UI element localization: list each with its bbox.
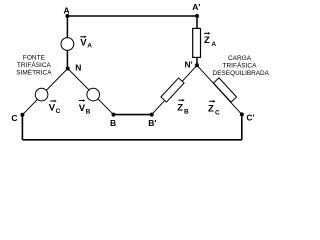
wire B to B'	[114, 114, 152, 116]
svg-text:A: A	[64, 6, 70, 16]
wire N' to B' (diagonal)	[152, 65, 197, 114]
svg-text:B: B	[86, 108, 91, 115]
wire A to A' (top line)	[67, 15, 197, 17]
svg-text:SIMÉTRICA: SIMÉTRICA	[16, 68, 52, 77]
node N	[66, 67, 70, 71]
wire ZA to N'	[196, 57, 198, 65]
impedance ZA (rectangle)	[193, 28, 201, 57]
source VC (circle)	[35, 88, 48, 101]
node C	[20, 113, 24, 117]
svg-text:C': C'	[246, 113, 254, 123]
svg-text:Z: Z	[208, 104, 214, 115]
label VA (vector arrow + V + subscript A)	[80, 36, 92, 50]
wire C down to bottom	[21, 115, 23, 140]
wire N' to C' (diagonal)	[197, 65, 242, 114]
source VB (circle)	[87, 88, 100, 101]
svg-text:N': N'	[185, 59, 193, 69]
svg-text:Z: Z	[177, 103, 183, 114]
source VA (circle)	[61, 38, 74, 51]
node B'	[150, 113, 154, 117]
wire C' up from bottom	[241, 114, 243, 139]
wire bottom C to C'	[22, 139, 241, 141]
node A	[65, 14, 69, 18]
svg-text:FONTE: FONTE	[23, 55, 46, 62]
svg-text:B': B'	[148, 118, 156, 128]
wire N to C (diagonal)	[22, 69, 67, 115]
wire N to B (diagonal)	[68, 69, 114, 115]
svg-text:C: C	[56, 108, 61, 115]
svg-text:N: N	[75, 63, 81, 73]
svg-text:TRIFÁSICA: TRIFÁSICA	[223, 61, 258, 70]
node A'	[195, 14, 199, 18]
node B	[112, 113, 116, 117]
svg-text:V: V	[80, 37, 87, 48]
label ZC (vector arrow + Z + subscript C)	[208, 100, 220, 117]
text FONTE TRIFASICA SIMETRICA	[16, 55, 52, 77]
wire A' down to ZA	[196, 16, 198, 28]
label VC (vector arrow + V + subscript C)	[49, 100, 61, 116]
label VB (vector arrow + V + subscript B)	[79, 99, 91, 115]
label ZB (vector arrow + Z + subscript B)	[177, 99, 189, 116]
svg-text:CARGA: CARGA	[228, 55, 252, 62]
label ZA (vector arrow + Z + subscript A)	[204, 32, 216, 48]
svg-text:B: B	[184, 109, 189, 116]
svg-text:C: C	[215, 110, 220, 117]
svg-text:Z: Z	[204, 35, 210, 46]
text CARGA TRIFASICA DESEQUILIBRADA	[213, 55, 270, 77]
node N'	[195, 63, 199, 67]
svg-text:C: C	[11, 113, 17, 123]
svg-text:DESEQUILIBRADA: DESEQUILIBRADA	[213, 70, 270, 77]
svg-text:A: A	[211, 41, 216, 48]
svg-text:A': A'	[192, 2, 200, 12]
impedance ZB (rotated rectangle)	[161, 78, 184, 102]
svg-text:B: B	[110, 118, 116, 128]
svg-text:TRIFÁSICA: TRIFÁSICA	[17, 60, 52, 69]
wire A down to source VA	[66, 16, 68, 69]
impedance ZC (rotated rectangle)	[213, 78, 236, 102]
node C'	[240, 112, 244, 116]
svg-text:A: A	[87, 42, 92, 49]
